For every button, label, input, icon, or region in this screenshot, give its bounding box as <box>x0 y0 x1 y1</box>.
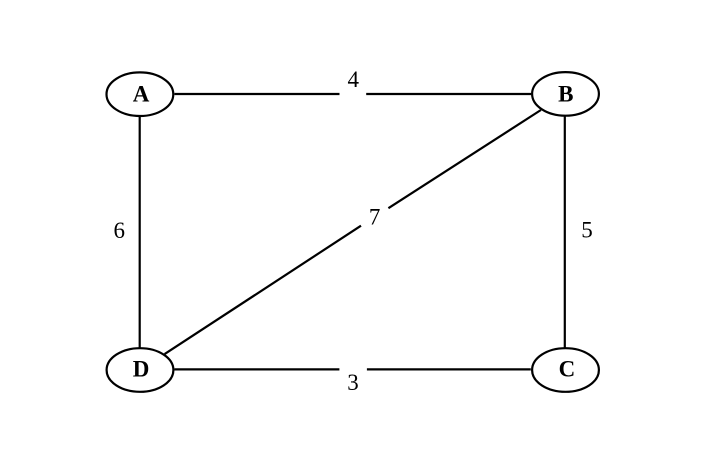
svg-text:D: D <box>133 357 150 382</box>
edge B-C (weight 5) <box>564 117 566 348</box>
svg-text:C: C <box>559 357 576 382</box>
edge A-B (weight 4) <box>175 93 532 95</box>
node D (ellipse) <box>107 348 174 392</box>
node C (ellipse) <box>532 348 599 392</box>
svg-text:B: B <box>558 81 573 106</box>
svg-text:4: 4 <box>347 67 359 92</box>
node A (ellipse) <box>106 72 173 116</box>
edge D-C (weight 3) <box>175 368 531 370</box>
edge D-B (weight 7, diagonal) <box>165 110 541 354</box>
svg-text:5: 5 <box>581 218 593 243</box>
svg-text:7: 7 <box>369 204 381 229</box>
edge A-D (weight 6) <box>139 117 141 348</box>
node B (ellipse) <box>532 72 599 116</box>
svg-text:6: 6 <box>114 218 126 243</box>
svg-text:A: A <box>133 81 150 106</box>
svg-text:3: 3 <box>347 370 359 395</box>
